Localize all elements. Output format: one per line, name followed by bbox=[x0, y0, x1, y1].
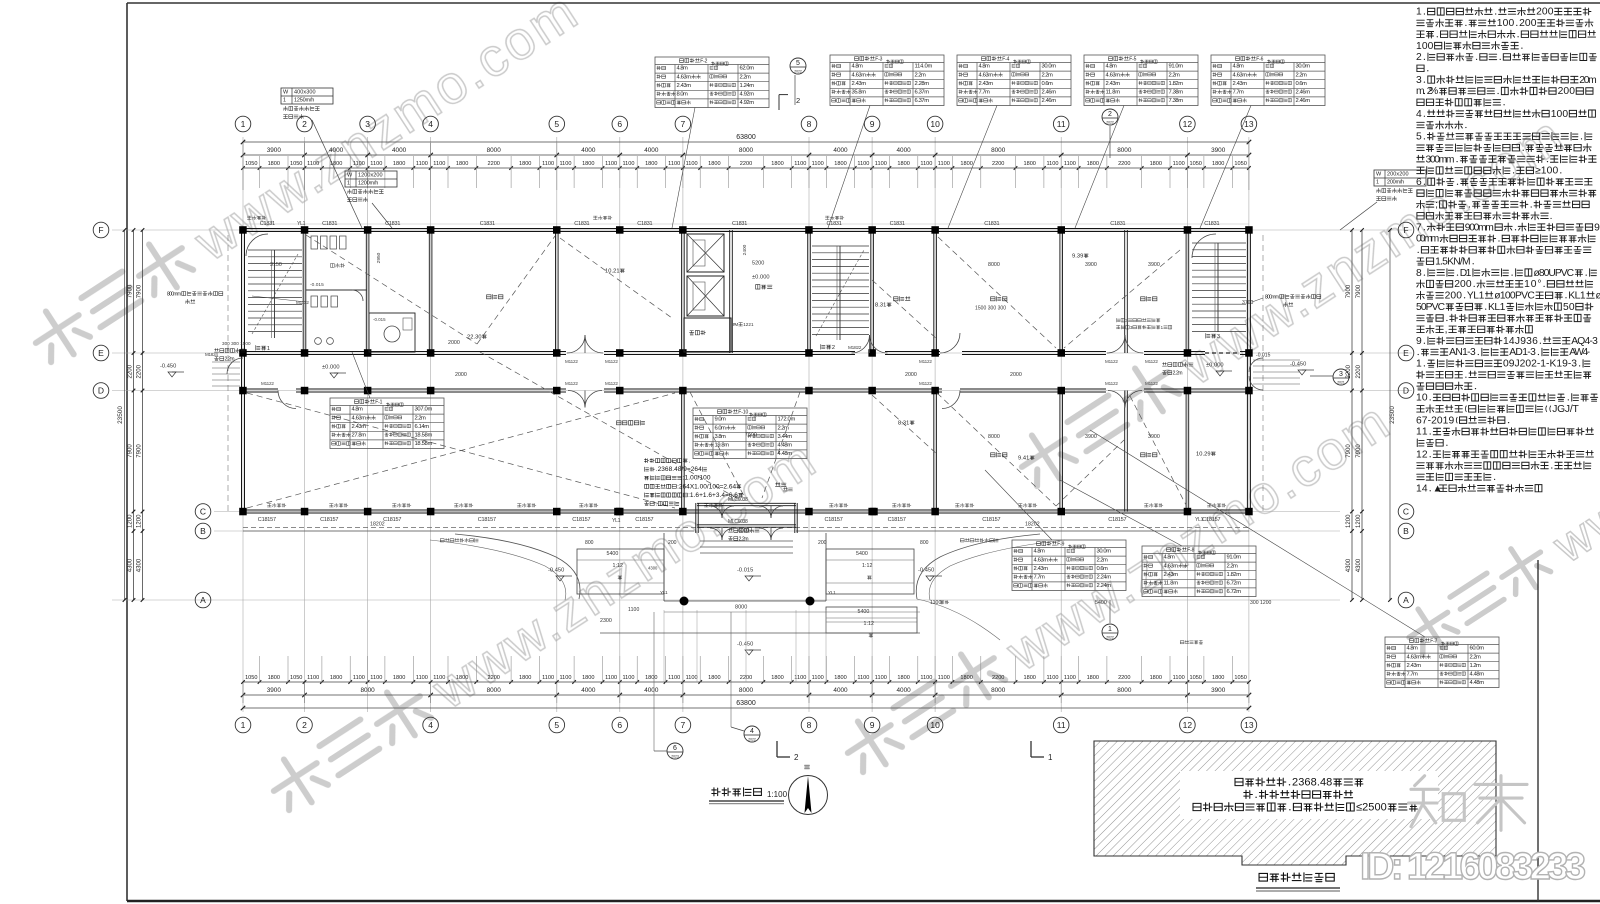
svg-text:D: D bbox=[1403, 386, 1409, 396]
svg-text:1100: 1100 bbox=[875, 161, 887, 167]
svg-text:14: 14 bbox=[1416, 483, 1428, 494]
svg-text:4.92m: 4.92m bbox=[740, 100, 755, 106]
svg-text:B: B bbox=[1403, 526, 1409, 536]
svg-text:F-2: F-2 bbox=[700, 58, 707, 64]
svg-text:F-7: F-7 bbox=[1430, 638, 1437, 644]
svg-text:1.2m: 1.2m bbox=[1470, 663, 1482, 669]
svg-text:4000: 4000 bbox=[329, 147, 344, 154]
svg-text:1800: 1800 bbox=[1023, 675, 1035, 681]
svg-text:1100: 1100 bbox=[1173, 161, 1185, 167]
svg-text:2.2m: 2.2m bbox=[1227, 563, 1239, 569]
svg-text:12: 12 bbox=[1183, 720, 1193, 730]
svg-text:4000: 4000 bbox=[896, 687, 911, 694]
svg-text:2: 2 bbox=[302, 119, 307, 129]
svg-text:11: 11 bbox=[1416, 427, 1428, 438]
svg-text:2000: 2000 bbox=[905, 372, 917, 378]
svg-text:3900: 3900 bbox=[267, 687, 282, 694]
svg-text:1800: 1800 bbox=[708, 675, 720, 681]
svg-text:100: 100 bbox=[1551, 109, 1569, 120]
svg-text:800mm: 800mm bbox=[167, 291, 181, 297]
svg-text:;: ; bbox=[1435, 200, 1438, 211]
svg-text:2: 2 bbox=[1416, 52, 1422, 63]
svg-text:1100: 1100 bbox=[930, 600, 941, 606]
svg-text:1200: 1200 bbox=[1346, 514, 1352, 528]
svg-text:A: A bbox=[1403, 595, 1409, 605]
svg-text:2950: 2950 bbox=[376, 252, 382, 263]
svg-text:1100: 1100 bbox=[416, 161, 428, 167]
svg-text:2200: 2200 bbox=[1118, 161, 1130, 167]
svg-text:1050: 1050 bbox=[1234, 161, 1246, 167]
svg-text:-0.450: -0.450 bbox=[737, 642, 753, 648]
svg-text:6: 6 bbox=[617, 720, 622, 730]
svg-text:2200: 2200 bbox=[128, 364, 134, 378]
svg-text:8000: 8000 bbox=[991, 147, 1006, 154]
svg-text:-0.015: -0.015 bbox=[1256, 352, 1271, 358]
svg-text:3900: 3900 bbox=[267, 147, 282, 154]
svg-text:M1122: M1122 bbox=[919, 381, 932, 386]
svg-text:1.5KN/M: 1.5KN/M bbox=[1435, 256, 1471, 267]
svg-text:M1122: M1122 bbox=[1105, 359, 1118, 364]
svg-text:1800: 1800 bbox=[1212, 161, 1224, 167]
svg-text:1800: 1800 bbox=[1087, 675, 1099, 681]
svg-text:1100: 1100 bbox=[686, 675, 698, 681]
svg-text:1100: 1100 bbox=[1046, 675, 1058, 681]
svg-text:E: E bbox=[1403, 348, 1409, 358]
svg-text:8: 8 bbox=[807, 119, 812, 129]
svg-text:4: 4 bbox=[428, 720, 433, 730]
svg-text:AD1-3: AD1-3 bbox=[1509, 347, 1536, 358]
svg-text:4.8m: 4.8m bbox=[1164, 555, 1176, 561]
svg-text:3.44m: 3.44m bbox=[778, 434, 793, 440]
svg-text:3900: 3900 bbox=[1085, 434, 1097, 440]
svg-text:A: A bbox=[200, 595, 206, 605]
svg-text:ø80UPVC: ø80UPVC bbox=[1534, 268, 1575, 279]
svg-text:2.43m: 2.43m bbox=[1407, 663, 1422, 669]
svg-text:6.72m: 6.72m bbox=[1227, 581, 1242, 587]
svg-text:1100: 1100 bbox=[605, 675, 617, 681]
svg-text:1100: 1100 bbox=[1064, 161, 1076, 167]
svg-text:2: 2 bbox=[796, 96, 800, 105]
svg-text:1800: 1800 bbox=[645, 675, 657, 681]
svg-text:2.43m: 2.43m bbox=[1233, 81, 1248, 87]
svg-text:JGJ/T: JGJ/T bbox=[1552, 404, 1579, 415]
svg-text:2.43m: 2.43m bbox=[1034, 566, 1049, 572]
svg-text:2: 2 bbox=[832, 345, 835, 351]
svg-text:4.63m: 4.63m bbox=[852, 72, 867, 78]
svg-text:4.8m: 4.8m bbox=[1407, 646, 1419, 652]
svg-text:-0.015: -0.015 bbox=[373, 317, 386, 322]
svg-text:10.21: 10.21 bbox=[605, 269, 620, 275]
svg-text:307.0m: 307.0m bbox=[415, 407, 433, 413]
svg-text:30.0m: 30.0m bbox=[1097, 549, 1112, 555]
svg-text:8: 8 bbox=[807, 720, 812, 730]
svg-text:1221: 1221 bbox=[743, 322, 754, 327]
svg-text:9: 9 bbox=[870, 720, 875, 730]
svg-text:1800: 1800 bbox=[519, 161, 531, 167]
svg-text:3: 3 bbox=[1416, 75, 1422, 86]
svg-text:F-9: F-9 bbox=[1057, 541, 1064, 547]
svg-text:W: W bbox=[347, 173, 353, 179]
svg-text:8000: 8000 bbox=[360, 687, 375, 694]
svg-text:2.2m: 2.2m bbox=[1173, 370, 1183, 376]
svg-text:1100: 1100 bbox=[938, 161, 950, 167]
svg-text:1800: 1800 bbox=[771, 675, 783, 681]
svg-text:-0.015: -0.015 bbox=[310, 282, 324, 288]
svg-text:2022: 2022 bbox=[1106, 636, 1114, 640]
svg-text:C18157: C18157 bbox=[635, 517, 653, 523]
svg-text:2.24m: 2.24m bbox=[1097, 575, 1112, 581]
svg-text:18202: 18202 bbox=[370, 521, 385, 527]
svg-text:4.63m: 4.63m bbox=[352, 415, 367, 421]
svg-text:2.2m: 2.2m bbox=[415, 415, 427, 421]
svg-text:C1831: C1831 bbox=[637, 221, 652, 227]
svg-text:4.8m: 4.8m bbox=[1106, 64, 1118, 70]
svg-text:7: 7 bbox=[1416, 222, 1422, 233]
svg-text:3900: 3900 bbox=[1148, 434, 1160, 440]
svg-text:2.24m: 2.24m bbox=[1097, 583, 1112, 589]
svg-text:0.6m: 0.6m bbox=[1296, 81, 1308, 87]
svg-text:1800: 1800 bbox=[897, 675, 909, 681]
svg-text:7.7m: 7.7m bbox=[1034, 575, 1046, 581]
svg-text:7900: 7900 bbox=[137, 284, 143, 298]
svg-text:C1831: C1831 bbox=[1204, 221, 1219, 227]
svg-text:800: 800 bbox=[585, 540, 594, 546]
svg-text:m: m bbox=[1416, 86, 1425, 97]
svg-text:1100: 1100 bbox=[370, 161, 382, 167]
svg-text:2.46m: 2.46m bbox=[1042, 98, 1057, 104]
svg-text:2.2m: 2.2m bbox=[1470, 654, 1482, 660]
svg-text:C1831: C1831 bbox=[574, 221, 589, 227]
svg-text:30.0m: 30.0m bbox=[1296, 64, 1311, 70]
svg-text:1100: 1100 bbox=[622, 161, 634, 167]
svg-text:10: 10 bbox=[930, 720, 940, 730]
svg-text:M1122: M1122 bbox=[261, 381, 274, 386]
svg-text:C18157: C18157 bbox=[320, 517, 338, 523]
svg-text:6.37m: 6.37m bbox=[915, 98, 930, 104]
svg-text:1800: 1800 bbox=[1150, 675, 1162, 681]
svg-text:1800: 1800 bbox=[771, 161, 783, 167]
svg-text:M1822: M1822 bbox=[848, 345, 862, 351]
svg-text:1800: 1800 bbox=[834, 675, 846, 681]
svg-text:-0.450: -0.450 bbox=[548, 568, 564, 574]
svg-text:±0.000: ±0.000 bbox=[752, 275, 770, 281]
svg-text:1: 1 bbox=[283, 98, 286, 104]
svg-text:6.37m: 6.37m bbox=[915, 90, 930, 96]
svg-text:FM: FM bbox=[733, 322, 738, 327]
svg-text:800mm: 800mm bbox=[1265, 294, 1279, 300]
svg-text:C18157: C18157 bbox=[982, 517, 1000, 523]
svg-text:2.2m: 2.2m bbox=[915, 72, 927, 78]
svg-text:1:100: 1:100 bbox=[767, 790, 788, 799]
svg-text:6: 6 bbox=[673, 745, 677, 752]
svg-text:100: 100 bbox=[1497, 18, 1515, 29]
svg-text:C18157: C18157 bbox=[258, 517, 276, 523]
svg-text:8000: 8000 bbox=[739, 687, 754, 694]
svg-text:1050: 1050 bbox=[1234, 675, 1246, 681]
svg-text:3900: 3900 bbox=[1211, 687, 1226, 694]
svg-text:200: 200 bbox=[1558, 86, 1576, 97]
svg-text:4.8m: 4.8m bbox=[979, 64, 991, 70]
svg-text:2200: 2200 bbox=[487, 161, 499, 167]
svg-text:-0.450: -0.450 bbox=[160, 364, 176, 370]
svg-text:4000: 4000 bbox=[833, 147, 848, 154]
svg-text:-0.450: -0.450 bbox=[1290, 362, 1306, 368]
svg-text:4.8m: 4.8m bbox=[352, 407, 364, 413]
svg-text:M1122: M1122 bbox=[565, 359, 578, 364]
svg-text:9: 9 bbox=[870, 119, 875, 129]
svg-text:1050: 1050 bbox=[245, 675, 257, 681]
svg-text:3900: 3900 bbox=[1211, 147, 1226, 154]
svg-text:,: , bbox=[1445, 325, 1448, 336]
svg-text:7900: 7900 bbox=[128, 444, 134, 458]
svg-text:2%: 2% bbox=[1427, 86, 1439, 97]
svg-text:C18157: C18157 bbox=[825, 517, 843, 523]
svg-text:7900: 7900 bbox=[1346, 284, 1352, 298]
svg-text:22.30: 22.30 bbox=[467, 335, 482, 341]
svg-text:1200m/h: 1200m/h bbox=[358, 181, 378, 187]
svg-text:1100: 1100 bbox=[1064, 675, 1076, 681]
svg-text:2.46m: 2.46m bbox=[1296, 98, 1311, 104]
svg-text:1050: 1050 bbox=[1189, 161, 1201, 167]
svg-text:6: 6 bbox=[1416, 177, 1422, 188]
svg-text:2.2m: 2.2m bbox=[1169, 72, 1181, 78]
svg-text:1100: 1100 bbox=[605, 161, 617, 167]
svg-text:1100: 1100 bbox=[559, 675, 571, 681]
svg-text:8: 8 bbox=[1416, 268, 1422, 279]
svg-text:50PVC: 50PVC bbox=[1416, 302, 1446, 313]
svg-text:1800: 1800 bbox=[268, 675, 280, 681]
svg-text:C18157: C18157 bbox=[1108, 517, 1126, 523]
svg-text:M1122: M1122 bbox=[1145, 381, 1158, 386]
svg-text:8000: 8000 bbox=[487, 147, 502, 154]
svg-text:200: 200 bbox=[1536, 7, 1554, 18]
svg-text:YL1: YL1 bbox=[297, 221, 306, 227]
svg-text:±0.000: ±0.000 bbox=[1206, 363, 1224, 369]
svg-text:1100: 1100 bbox=[668, 161, 680, 167]
svg-text:7: 7 bbox=[681, 119, 686, 129]
svg-text:ID: 1216083233: ID: 1216083233 bbox=[1360, 846, 1586, 888]
svg-text:5400: 5400 bbox=[1095, 600, 1107, 606]
svg-text:18202: 18202 bbox=[1025, 521, 1040, 527]
svg-text:2400: 2400 bbox=[742, 244, 748, 255]
svg-text:ø: ø bbox=[1596, 291, 1600, 302]
svg-text:2.43m: 2.43m bbox=[1106, 81, 1121, 87]
svg-text:1200: 1200 bbox=[127, 514, 133, 528]
svg-text:400x300: 400x300 bbox=[294, 90, 316, 96]
svg-text:4300: 4300 bbox=[128, 558, 134, 572]
svg-text:8.31: 8.31 bbox=[898, 421, 909, 427]
svg-text:11: 11 bbox=[1057, 119, 1066, 129]
svg-text:E: E bbox=[98, 348, 104, 358]
svg-text:1800: 1800 bbox=[834, 161, 846, 167]
svg-text:1800: 1800 bbox=[582, 675, 594, 681]
svg-text:4.63m: 4.63m bbox=[1233, 72, 1248, 78]
svg-text:7: 7 bbox=[681, 720, 686, 730]
svg-text:1800: 1800 bbox=[1212, 675, 1224, 681]
svg-text:2.43m: 2.43m bbox=[352, 424, 367, 430]
svg-text:C: C bbox=[1403, 507, 1409, 517]
svg-text:AQ4-3: AQ4-3 bbox=[1571, 336, 1598, 347]
svg-text:50: 50 bbox=[1563, 302, 1575, 313]
svg-text:M1122: M1122 bbox=[605, 381, 618, 386]
svg-text:7900: 7900 bbox=[1356, 444, 1362, 458]
svg-text:2.2m: 2.2m bbox=[1097, 557, 1109, 563]
svg-text:1: 1 bbox=[1376, 180, 1379, 186]
svg-text:2000: 2000 bbox=[1010, 372, 1022, 378]
svg-text:1100: 1100 bbox=[857, 675, 869, 681]
svg-text:6.14m: 6.14m bbox=[415, 424, 430, 430]
svg-text:8000: 8000 bbox=[988, 434, 1000, 440]
svg-text:3: 3 bbox=[1217, 334, 1220, 340]
svg-text:1050: 1050 bbox=[245, 161, 257, 167]
svg-text:1100: 1100 bbox=[628, 607, 639, 613]
svg-text:3900: 3900 bbox=[1085, 262, 1097, 268]
svg-text:2.2m: 2.2m bbox=[1042, 72, 1054, 78]
svg-text:114.0m: 114.0m bbox=[915, 64, 933, 70]
svg-text:±0.000: ±0.000 bbox=[322, 365, 340, 371]
svg-text:1100: 1100 bbox=[433, 161, 445, 167]
svg-text:C18157: C18157 bbox=[572, 517, 590, 523]
svg-text:F: F bbox=[1403, 225, 1408, 235]
svg-text:09J202-1-K19-3: 09J202-1-K19-3 bbox=[1503, 359, 1577, 370]
svg-text:14J936: 14J936 bbox=[1503, 336, 1538, 347]
svg-text:10.29: 10.29 bbox=[1196, 452, 1211, 458]
svg-text:1: 1 bbox=[241, 720, 246, 730]
svg-text:1800: 1800 bbox=[897, 161, 909, 167]
svg-text:1800: 1800 bbox=[708, 161, 720, 167]
svg-text:6: 6 bbox=[617, 119, 622, 129]
svg-text:4.63m: 4.63m bbox=[1034, 557, 1049, 563]
svg-text:2.43m: 2.43m bbox=[979, 81, 994, 87]
svg-text:3: 3 bbox=[1339, 371, 1343, 378]
svg-text:-0.450: -0.450 bbox=[918, 568, 934, 574]
svg-text:F-5: F-5 bbox=[1129, 56, 1136, 62]
svg-text:2200: 2200 bbox=[992, 161, 1004, 167]
svg-text:1100: 1100 bbox=[307, 675, 319, 681]
svg-text:2021: 2021 bbox=[1337, 381, 1345, 385]
svg-text:1100: 1100 bbox=[559, 161, 571, 167]
svg-text:8000: 8000 bbox=[988, 262, 1000, 268]
svg-text:F: F bbox=[98, 225, 103, 235]
svg-text:2022: 2022 bbox=[794, 70, 802, 74]
svg-text:F-3: F-3 bbox=[875, 56, 882, 62]
svg-text:23500: 23500 bbox=[117, 406, 124, 424]
svg-text:2022: 2022 bbox=[748, 738, 756, 742]
svg-text:2000: 2000 bbox=[455, 372, 467, 378]
svg-text:4000: 4000 bbox=[581, 147, 596, 154]
svg-text:2.2m: 2.2m bbox=[739, 536, 749, 542]
svg-text:2.2m: 2.2m bbox=[778, 425, 790, 431]
svg-text:800: 800 bbox=[920, 540, 929, 546]
svg-text:200: 200 bbox=[818, 540, 827, 546]
svg-text:1100: 1100 bbox=[416, 675, 428, 681]
svg-text:F-10: F-10 bbox=[738, 409, 748, 415]
svg-text:F-8: F-8 bbox=[1187, 547, 1194, 553]
svg-text:1.24m: 1.24m bbox=[740, 83, 755, 89]
svg-text:2.46m: 2.46m bbox=[1042, 90, 1057, 96]
svg-text:3150: 3150 bbox=[270, 262, 282, 268]
svg-text:4.48m: 4.48m bbox=[1470, 672, 1485, 678]
svg-text:1100: 1100 bbox=[875, 675, 887, 681]
svg-text:2.2m: 2.2m bbox=[740, 74, 752, 80]
svg-text:1: 1 bbox=[267, 346, 270, 352]
svg-text:91.0m: 91.0m bbox=[1169, 64, 1184, 70]
svg-text:7900: 7900 bbox=[1346, 444, 1352, 458]
svg-text:9.41: 9.41 bbox=[1018, 456, 1029, 462]
svg-text:0.6m: 0.6m bbox=[1042, 81, 1054, 87]
svg-text:C18157: C18157 bbox=[478, 517, 496, 523]
svg-text:C18157: C18157 bbox=[1202, 517, 1220, 523]
svg-text:M1122: M1122 bbox=[919, 359, 932, 364]
svg-text:6.0m: 6.0m bbox=[715, 425, 727, 431]
svg-text:4.63m: 4.63m bbox=[1407, 654, 1422, 660]
svg-text:8.31: 8.31 bbox=[875, 303, 886, 309]
svg-text:9: 9 bbox=[1594, 222, 1600, 233]
svg-text:300 300 1500: 300 300 1500 bbox=[222, 341, 251, 346]
svg-text:D: D bbox=[98, 386, 104, 396]
svg-text:8.0m: 8.0m bbox=[677, 92, 689, 98]
svg-text:200: 200 bbox=[668, 540, 677, 546]
svg-text:C18157: C18157 bbox=[383, 517, 401, 523]
svg-text:1200x200: 1200x200 bbox=[358, 173, 383, 179]
svg-text:1100: 1100 bbox=[353, 161, 365, 167]
svg-text:1050: 1050 bbox=[1189, 675, 1201, 681]
svg-text:1100: 1100 bbox=[686, 161, 698, 167]
svg-text:C1831: C1831 bbox=[984, 221, 999, 227]
svg-text:91.0m: 91.0m bbox=[1227, 555, 1242, 561]
svg-text:5400: 5400 bbox=[856, 551, 868, 557]
svg-text:4300: 4300 bbox=[1356, 558, 1362, 572]
svg-text:200: 200 bbox=[1454, 279, 1472, 290]
svg-text:4: 4 bbox=[1416, 109, 1422, 120]
svg-text:20m: 20m bbox=[1579, 75, 1596, 86]
svg-text:2: 2 bbox=[302, 720, 307, 730]
svg-text:1: 1 bbox=[1048, 753, 1053, 762]
svg-text:4000: 4000 bbox=[896, 147, 911, 154]
svg-text:8000: 8000 bbox=[735, 604, 747, 610]
svg-text:12: 12 bbox=[1183, 119, 1193, 129]
svg-text:1200: 1200 bbox=[1356, 514, 1362, 528]
svg-text:2200: 2200 bbox=[137, 364, 143, 378]
svg-text:3.8m: 3.8m bbox=[715, 434, 727, 440]
svg-text:7.38m: 7.38m bbox=[1169, 90, 1184, 96]
svg-text:8000: 8000 bbox=[487, 687, 502, 694]
svg-text:7.38m: 7.38m bbox=[1169, 98, 1184, 104]
svg-text:≥100: ≥100 bbox=[1535, 166, 1558, 177]
svg-text:M1122: M1122 bbox=[565, 381, 578, 386]
svg-text:YL1: YL1 bbox=[1467, 291, 1485, 302]
svg-text:1100: 1100 bbox=[1046, 161, 1058, 167]
svg-text:YL1: YL1 bbox=[1195, 517, 1204, 523]
svg-text:2.28m: 2.28m bbox=[915, 81, 930, 87]
svg-text:2200: 2200 bbox=[1118, 675, 1130, 681]
svg-text:C1831: C1831 bbox=[322, 221, 337, 227]
svg-text:900mm: 900mm bbox=[1465, 222, 1494, 233]
svg-text:1100: 1100 bbox=[794, 161, 806, 167]
svg-text:1: 1 bbox=[1416, 7, 1422, 18]
svg-text:7.7m: 7.7m bbox=[1233, 90, 1245, 96]
svg-text:4300: 4300 bbox=[1346, 558, 1352, 572]
svg-text:6000: 6000 bbox=[738, 528, 749, 534]
svg-text::1.00/100: :1.00/100 bbox=[683, 475, 711, 482]
svg-text:1.82m: 1.82m bbox=[1227, 572, 1242, 578]
svg-text:YL1: YL1 bbox=[612, 518, 621, 524]
svg-text:5: 5 bbox=[554, 720, 559, 730]
svg-text:W: W bbox=[283, 90, 289, 96]
svg-text:1800: 1800 bbox=[1087, 161, 1099, 167]
svg-text:7.7m: 7.7m bbox=[979, 90, 991, 96]
svg-text:F-4: F-4 bbox=[1002, 56, 1009, 62]
